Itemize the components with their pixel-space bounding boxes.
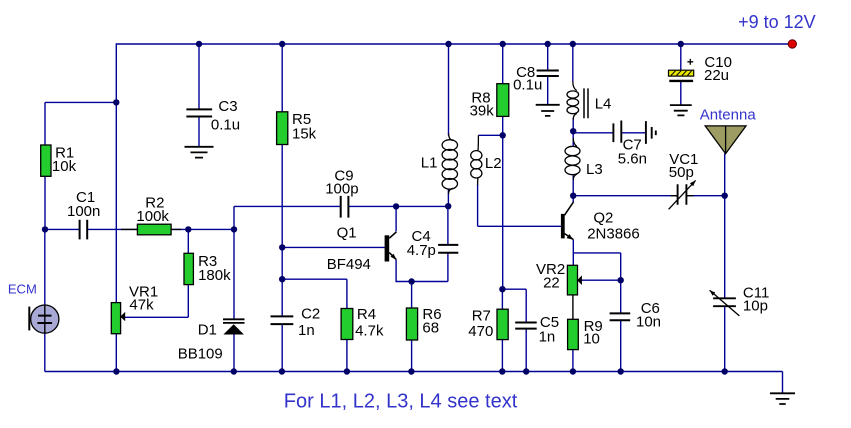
svg-text:47k: 47k — [129, 296, 154, 313]
svg-text:L4: L4 — [595, 95, 612, 112]
wire: +V top rail — [116, 43, 792, 45]
inductor L1 — [442, 134, 457, 195]
svg-text:10p: 10p — [743, 298, 768, 315]
wire: L3 bottom lead — [572, 176, 574, 196]
node: bottom rail C2 — [279, 368, 285, 374]
wire: C3 top lead — [198, 44, 200, 109]
svg-text:C3: C3 — [218, 98, 237, 115]
wire: R2 to D1 node — [171, 228, 234, 230]
ECM microphone — [29, 305, 59, 333]
svg-text:For L1, L2, L3, L4 see text: For L1, L2, L3, L4 see text — [284, 391, 518, 413]
svg-text:D1: D1 — [198, 321, 217, 338]
resistor R6 68 — [406, 308, 417, 340]
node: R1 top corner — [113, 99, 119, 105]
node: R2/R3 junction — [185, 226, 191, 232]
wire: L2 top wire — [478, 134, 502, 136]
variable capacitor C11 10p — [710, 290, 740, 316]
wire: R3 bottom to VR1 wiper — [125, 285, 189, 318]
svg-text:50p: 50p — [669, 164, 694, 181]
inductor L3 — [565, 138, 580, 180]
svg-text:100k: 100k — [136, 208, 169, 225]
ground below C10 — [670, 105, 692, 115]
resistor R2 100k — [121, 224, 181, 235]
wire: L1 bottom lead — [447, 190, 449, 206]
svg-text:100n: 100n — [67, 203, 100, 220]
node: R7/C5 junction — [499, 286, 505, 292]
svg-text:Q1: Q1 — [337, 225, 357, 242]
svg-text:+9 to 12V: +9 to 12V — [738, 12, 816, 32]
node: C2/R4 junction — [279, 276, 285, 282]
node: Q1 base junction — [279, 244, 285, 250]
svg-text:R4: R4 — [357, 306, 376, 323]
node: bottom rail C11 — [722, 368, 728, 374]
wire: R8 top lead — [502, 44, 504, 84]
wire: ground bottom rail — [45, 371, 783, 373]
wire: D1 anode branch vertical — [233, 206, 235, 319]
wire: C5 branch — [502, 289, 526, 371]
wire: Q1 base wire — [282, 246, 385, 248]
svg-text:0.1u: 0.1u — [513, 77, 542, 94]
svg-text:1n: 1n — [539, 329, 556, 346]
capacitor C1 100n — [80, 220, 88, 240]
wire: VR2 wiper wire — [581, 279, 621, 281]
wire: C2 bottom lead — [281, 324, 283, 371]
node: L4/L3/C7 junction — [570, 128, 576, 134]
wire: C7 line — [573, 132, 646, 134]
wire: C4 leads — [447, 206, 449, 281]
wire: R4 bottom lead — [346, 340, 348, 372]
node: VR2 wiper/C6 junction — [618, 277, 624, 283]
wire: C9 line left — [234, 205, 341, 207]
wire: R9 bottom lead — [572, 350, 574, 372]
wire: Q2 emitter run — [573, 240, 620, 314]
wire: bottom-right ground stem — [782, 372, 784, 393]
node: rail dot above L4 — [570, 41, 576, 47]
wire: R5 down to C2 — [281, 145, 283, 317]
node: bottom rail C5 — [523, 368, 529, 374]
variable capacitor VC1 50p — [669, 180, 696, 209]
node: antenna/VC1/C11 junction — [722, 193, 728, 199]
inductor L2 — [471, 135, 482, 185]
transistor Q2 2N3866 — [561, 202, 574, 240]
wire: L1 top lead — [448, 44, 450, 136]
svg-text:1n: 1n — [298, 322, 315, 339]
svg-text:Q2: Q2 — [593, 209, 613, 226]
wire: R8 bottom down to R7 node — [502, 116, 504, 289]
svg-text:470: 470 — [468, 323, 493, 340]
node: bottom rail R7 — [499, 368, 505, 374]
svg-text:Antenna: Antenna — [700, 107, 757, 124]
potentiometer VR2 22 — [567, 265, 582, 319]
wire: left vertical (rail to VR1 top) — [115, 43, 117, 302]
node: bottom rail D1 — [231, 368, 237, 374]
wire: R5 top lead — [281, 44, 283, 112]
capacitor C2 1n — [271, 316, 294, 324]
node: Q2 collector/L3/VC1 junction — [570, 193, 576, 199]
svg-text:L2: L2 — [485, 155, 502, 172]
capacitor C4 4.7p — [438, 245, 458, 253]
svg-text:10n: 10n — [636, 314, 661, 331]
electrolytic capacitor C10 22u — [669, 59, 694, 81]
svg-text:22u: 22u — [704, 67, 729, 84]
wire: ECM bottom lead — [44, 333, 46, 371]
svg-text:0.1u: 0.1u — [211, 116, 240, 133]
capacitor C6 10n — [610, 313, 631, 320]
node: rail dot above R5 — [279, 41, 285, 47]
svg-text:4.7p: 4.7p — [407, 242, 436, 259]
node: rail dot above C8 — [545, 41, 551, 47]
svg-text:C2: C2 — [301, 306, 320, 323]
node: rail dot above L1 — [445, 41, 451, 47]
transistor Q1 BF494 — [385, 232, 397, 262]
wire: VR1 bottom lead — [115, 334, 117, 372]
capacitor C9 100p — [341, 196, 349, 218]
wire: node to R4 top — [282, 279, 347, 308]
node: bottom rail R9 — [570, 368, 576, 374]
node: L1/C4 junction — [445, 203, 451, 209]
wire: C11 branch — [724, 196, 726, 372]
wire: D1 cathode to rail — [233, 335, 235, 372]
wire: C1 left lead — [45, 228, 80, 230]
wire: Q2 collector lead — [572, 196, 574, 203]
capacitor C3 0.1u — [186, 109, 212, 116]
antenna symbol — [705, 126, 746, 154]
wire: antenna stem — [724, 154, 726, 196]
wire: C10 leads — [680, 44, 682, 105]
svg-text:10: 10 — [583, 330, 600, 347]
ground bottom right — [770, 393, 795, 404]
ground below C8 — [536, 105, 560, 116]
svg-text:68: 68 — [422, 319, 439, 336]
wire: C1 to R2 — [87, 228, 137, 230]
node: Q1 collector junction — [393, 203, 399, 209]
wire: L4 top lead — [572, 44, 574, 82]
wire: L4-L3 junction segment — [572, 118, 574, 146]
wire: C8 leads — [547, 44, 549, 105]
resistor R4 4.7k — [341, 309, 353, 340]
node: Q1 emitter/R6 junction — [408, 278, 414, 284]
svg-text:BB109: BB109 — [178, 346, 223, 363]
node: D1 branch junction — [231, 226, 237, 232]
node: bottom rail R6 — [408, 368, 414, 374]
svg-text:L1: L1 — [421, 154, 438, 171]
node: rail dot above C10 — [678, 41, 684, 47]
varicap diode D1 BB109 — [223, 319, 245, 334]
svg-text:180k: 180k — [198, 267, 231, 284]
node: bottom rail R4 — [344, 368, 350, 374]
potentiometer VR1 47k — [111, 303, 125, 334]
inductor L4 with core — [567, 82, 588, 120]
capacitor C8 0.1u — [537, 71, 559, 77]
resistor R7 470 — [497, 309, 508, 339]
wire: C3 ground lead — [198, 117, 200, 147]
wire: R7 leads — [501, 289, 503, 371]
svg-text:4.7k: 4.7k — [355, 323, 384, 340]
svg-text:22: 22 — [543, 274, 560, 291]
svg-text:10k: 10k — [52, 158, 77, 175]
svg-text:15k: 15k — [292, 126, 317, 143]
capacitor C5 1n — [515, 323, 537, 329]
node: R1/C1/mic junction — [42, 226, 48, 232]
svg-text:BF494: BF494 — [327, 256, 371, 273]
svg-text:R7: R7 — [472, 307, 491, 324]
svg-text:39k: 39k — [470, 103, 495, 120]
svg-text:5.6n: 5.6n — [618, 151, 647, 168]
wire: C6 bottom lead — [620, 320, 622, 371]
wire: VC1 line from collector node — [573, 195, 725, 197]
ground below C3 — [185, 147, 214, 158]
resistor R5 15k — [277, 112, 288, 145]
svg-text:ECM: ECM — [8, 282, 37, 297]
resistor R3 180k — [184, 253, 193, 284]
power terminal red dot — [788, 40, 796, 48]
wire: R1 top branch — [45, 102, 116, 145]
wire: R1 bottom to C1 node — [44, 176, 46, 229]
node: bottom rail C6 — [618, 368, 624, 374]
wire: Q1 collector lead — [395, 206, 397, 231]
wire: C9 line right to collector node — [348, 205, 448, 207]
resistor R9 10 — [568, 319, 579, 349]
resistor R8 39k — [497, 84, 509, 117]
svg-text:100p: 100p — [325, 180, 358, 197]
capacitor C7 5.6n — [613, 121, 655, 144]
wire: ECM top lead — [44, 229, 46, 305]
node: bottom rail VR1 — [113, 368, 119, 374]
svg-text:2N3866: 2N3866 — [587, 225, 640, 242]
resistor R1 10k — [41, 145, 51, 176]
wire: L2 bottom to Q2 base — [478, 185, 561, 227]
node: rail dot above R8 — [500, 41, 506, 47]
node: rail dot above C3 — [196, 41, 202, 47]
svg-text:L3: L3 — [586, 161, 603, 178]
node: R8/L2 junction — [500, 132, 506, 138]
wire: R3 top lead — [187, 229, 189, 253]
wire: R6 leads — [411, 282, 413, 372]
wire: Q1 emitter run — [396, 259, 448, 281]
